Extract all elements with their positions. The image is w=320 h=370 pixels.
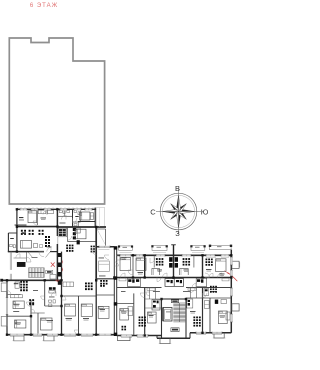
LB junction block: [16, 225, 18, 228]
LB bed top-left room: [28, 211, 37, 223]
RB fixtures right of core: [187, 299, 193, 308]
RB red curve right: [227, 272, 237, 281]
LB bed lower x66: [65, 304, 76, 316]
LBx door arc: [105, 255, 110, 260]
LBx east wall lower: [95, 281, 97, 335]
RB door arcs: [128, 270, 133, 275]
RB beds top row left apt: [120, 258, 131, 271]
LB room label right of stairs: [47, 246, 52, 249]
LB wall y306: [45, 305, 62, 307]
LB top wall windows: [20, 208, 27, 210]
compass outer circle: [160, 193, 197, 230]
LB wall y296 mid: [62, 295, 97, 297]
LB corridor vestibule: [26, 252, 28, 262]
RB bottom window sills: [121, 335, 222, 338]
RB bath left core: [152, 300, 160, 311]
RB balcony right 1: [232, 261, 239, 268]
RB kitchen grid right apt: [206, 259, 208, 261]
RB balcony 1: [119, 246, 133, 250]
RB bottom wall right: [190, 332, 231, 334]
LB left wall upper: [16, 209, 18, 252]
LB stair label box: [46, 270, 53, 273]
RB lower rooms walls: [133, 293, 135, 335]
RB bed mid low: [148, 312, 157, 323]
LB closet row: [10, 295, 22, 298]
LB wall x67.5 mid: [67, 227, 69, 242]
LB wall x57.4 door gap: [57, 236, 59, 244]
LBx bed: [98, 306, 109, 318]
LBx top wall: [96, 246, 114, 248]
LB lower room label: [14, 283, 19, 284]
LB left balcony 1: [1, 283, 7, 292]
LB corridor red squiggle: [61, 259, 63, 273]
LB bed lower B: [15, 320, 26, 328]
LB wall x78.5 lower: [78, 296, 80, 335]
LB wall x57.4: [56, 209, 58, 281]
LB sofa mid: [21, 241, 32, 249]
LB door arcs bath: [62, 215, 67, 220]
RB kitchen small x121: [122, 326, 124, 328]
LBx room labels: [99, 257, 105, 260]
LB top wall window ticks: [18, 207, 93, 209]
LB wall y225 left: [15, 224, 27, 226]
LB kitchen counters lower: [49, 287, 52, 290]
LB wardrobe top mid: [48, 210, 54, 213]
LB porch right: [44, 335, 54, 341]
LB outside diagonal: [98, 230, 106, 244]
LB table cluster lower: [29, 299, 31, 301]
LB terrace inner line: [99, 208, 101, 228]
RB top wall: [117, 254, 232, 256]
LB terrace outline: [96, 208, 104, 228]
LB thick wall y227: [58, 226, 106, 228]
RB balcony 4: [210, 245, 232, 249]
RB stair core: [162, 299, 187, 338]
LB bottom wall windows: [10, 334, 24, 336]
LB left room label: [10, 238, 14, 239]
RB corridor closets: [119, 278, 126, 281]
RB corridor labels: [153, 290, 160, 293]
RB bottom wall left: [117, 335, 162, 337]
LB wall x44.7: [44, 280, 46, 306]
RB core lower box: [171, 328, 179, 332]
RB party wall C: [202, 255, 204, 277]
LB wall x61.5: [61, 252, 63, 335]
RB elevator: [163, 308, 172, 322]
LB lower top wall: [1, 279, 62, 281]
svg-text:З: З: [175, 229, 180, 238]
LB wall x31 lower: [30, 300, 32, 335]
compass cardinal ticks: [156, 189, 201, 234]
RB core stairs: [173, 303, 185, 322]
LB bath fixtures lower: [49, 300, 52, 302]
LBx top wall window: [99, 246, 110, 248]
LB red cross: [51, 263, 55, 267]
RB bath block left apt: [128, 279, 131, 282]
RB fixtures right apt: [204, 289, 209, 296]
RB sofa icons: [152, 269, 160, 275]
LB dining big table: [59, 229, 66, 236]
RB top wall window sills: [120, 257, 229, 259]
LB wall y241.5: [68, 241, 97, 243]
RB right porch: [214, 333, 224, 338]
RB fridge right lower: [215, 300, 218, 304]
LBx kitchen grid: [100, 280, 102, 282]
LB bedroom mid bed: [75, 229, 86, 239]
LBx wall y295: [96, 294, 114, 296]
LB hall label: [60, 223, 66, 224]
RB bath block right apt: [197, 279, 200, 282]
LB small table: [40, 245, 43, 248]
LB room2 label: [41, 217, 47, 220]
LBx top window sill: [99, 249, 110, 251]
LB lower left wall: [6, 280, 8, 334]
RB top row labels: [122, 256, 127, 259]
RB bed lower left: [120, 309, 129, 321]
RB right lower table: [221, 300, 227, 304]
RB top wall windows: [120, 254, 131, 256]
compass star: [163, 196, 195, 228]
LB bed lower A: [13, 301, 24, 309]
svg-text:С: С: [150, 207, 156, 216]
wall junction blocks: [16, 225, 18, 227]
corridor right small box: [50, 275, 56, 280]
LB room label1: [19, 217, 23, 218]
LBx wall y278.8: [96, 278, 114, 280]
RB right wall sills: [232, 257, 234, 322]
LB red diagonal lower: [56, 280, 63, 285]
LB bed lower C: [41, 318, 53, 330]
compass inner circle: [162, 195, 194, 227]
LB notch walls: [97, 228, 106, 230]
RB kitchen cluster right low: [193, 317, 195, 319]
LB wall y221.5: [78, 221, 95, 223]
LB table cluster C: [39, 230, 41, 232]
RB right lower closet: [205, 301, 210, 309]
LB wall y316.2: [7, 315, 31, 317]
RB kitchen grid right of divider: [183, 258, 185, 260]
LB thick wall y226.6: [17, 226, 58, 228]
LB east wall x96.2: [95, 227, 97, 281]
LB left step room walls: [8, 232, 17, 234]
LB lower left corner blob: [0, 279, 3, 282]
RB room wall x181: [193, 255, 195, 267]
RB main double wall x115.5: [113, 247, 115, 336]
LB kitchen right room wall: [78, 222, 80, 227]
LB kitchen row clusters: [66, 245, 68, 247]
LB structural band blocks: [58, 253, 61, 257]
RB corridor south wall: [117, 287, 162, 289]
RB wardrobe lines lower: [128, 307, 133, 316]
RB party wall B: [173, 255, 175, 277]
LB bath walls: [57, 215, 72, 217]
LB left balcony 2: [1, 317, 7, 327]
LB wall x47 upper small: [46, 209, 48, 214]
elevator LB: [17, 262, 26, 267]
RB kitchen grid right apt corridor: [210, 286, 212, 288]
LB mid closets: [63, 282, 74, 287]
LB left wall window lines: [6, 298, 7, 315]
RB bottom wall core: [157, 337, 190, 339]
RB balcony 3: [191, 246, 205, 251]
RB left porch: [118, 336, 131, 341]
LB wall x95.2 upper: [94, 208, 96, 228]
RB corridor north wall: [117, 277, 232, 279]
LB wall x38 lower: [37, 313, 39, 335]
svg-text:Ю: Ю: [201, 207, 209, 216]
LB stairs flight: [29, 268, 45, 278]
LB armchair small: [34, 244, 38, 248]
LB wall x37.3: [36, 209, 38, 225]
RB kitchen grid left of divider: [156, 258, 158, 260]
LB wall y294.6: [7, 294, 21, 296]
LB dining table cluster: [45, 236, 47, 238]
LB stair mid line: [29, 272, 45, 274]
LB lower door arcs: [27, 302, 32, 307]
svg-text:6 ЭТАЖ: 6 ЭТАЖ: [30, 3, 58, 9]
LB porch left: [14, 335, 24, 341]
RB corridor small dividers: [149, 288, 151, 300]
RB balcony right 2: [232, 304, 239, 311]
LB room label lower A: [13, 310, 19, 313]
RB room wall x154.5: [153, 255, 155, 267]
corridor door leaves: [28, 252, 33, 258]
RB party wall stub: [173, 245, 175, 256]
RB bottom wall windows: [121, 334, 132, 336]
RB right wall: [230, 250, 232, 333]
LB kitchen label right: [75, 216, 78, 217]
RB core porch: [160, 338, 170, 343]
LB corridor label: [32, 256, 38, 259]
LB wardrobe NE: [90, 213, 93, 220]
RB balcony labels: [123, 246, 128, 249]
LB bottom window sills: [10, 336, 93, 338]
LB left room fixtures: [10, 245, 13, 247]
LB corridor west double wall: [9, 252, 11, 270]
upper building outline: [9, 38, 104, 204]
LBx bed label: [100, 308, 106, 311]
LBx room rects: [99, 261, 110, 272]
RB musor box: [171, 300, 178, 303]
RB bed lower right: [218, 311, 227, 324]
RB fridge columns: [169, 257, 172, 262]
svg-text:В: В: [175, 184, 180, 193]
LB lower kitchen mid cluster: [85, 283, 87, 285]
LB bottom outer wall: [7, 334, 114, 336]
LB lower kitchen big cluster: [20, 281, 22, 283]
LB bath fixtures: [59, 211, 62, 213]
LB bedroom NE bed: [80, 212, 90, 220]
LB top outer wall: [17, 208, 97, 210]
LB corridor top wall: [8, 251, 44, 253]
RB lower labels: [121, 311, 127, 314]
RB red mark small: [225, 271, 229, 275]
LB table cluster A: [21, 230, 23, 232]
LB lower labels: [14, 303, 20, 306]
LB bed lower x81: [81, 304, 92, 316]
RB right wall windows: [230, 257, 232, 265]
LB wardrobe top room: [38, 210, 46, 213]
RB party wall A: [144, 255, 146, 277]
LB left wall window: [6, 298, 8, 315]
RB room wall x133: [132, 255, 134, 277]
RB kitchen cluster left low: [139, 317, 141, 319]
LB corridor door arcs: [39, 252, 44, 257]
RB bath block center: [165, 279, 184, 287]
RB bed right apt: [216, 259, 226, 272]
LB table cluster B: [29, 230, 31, 232]
extra door arcs: [33, 221, 37, 225]
LB kitchen counters right: [73, 228, 76, 231]
RB balcony 2: [152, 246, 167, 251]
